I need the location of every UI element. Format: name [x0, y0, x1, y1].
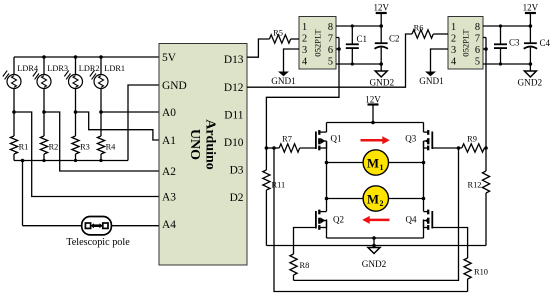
svg-text:R1: R1	[19, 143, 29, 152]
telescopic pole sensor	[23, 161, 160, 249]
svg-text:GND1: GND1	[271, 76, 296, 86]
svg-text:D10: D10	[224, 137, 244, 149]
svg-text:7: 7	[475, 33, 480, 44]
pin label D12	[224, 82, 244, 94]
node LDR2 top	[74, 55, 78, 59]
svg-text:5V: 5V	[162, 52, 177, 64]
wire Q3 drain riser	[423, 123, 425, 133]
wire pin5 rail right	[483, 63, 530, 65]
node C2 top	[379, 24, 383, 28]
pin label D2	[230, 192, 244, 204]
node GND2 tap	[372, 236, 376, 240]
wire pin8 rail	[336, 25, 381, 27]
svg-text:Q1: Q1	[331, 134, 342, 144]
node LDR3 top	[42, 55, 46, 59]
node R7 left A	[265, 146, 269, 150]
svg-text:6: 6	[475, 45, 480, 56]
svg-text:D3: D3	[230, 165, 244, 177]
node LDR1 bottom	[99, 110, 103, 114]
node GND2 L2 junction	[372, 244, 376, 248]
pin label D13	[224, 54, 244, 66]
wire GND2 stem	[373, 238, 375, 246]
resistor R7	[279, 135, 316, 153]
node C3 top	[499, 24, 502, 27]
svg-text:A3: A3	[162, 192, 176, 204]
node C3 bottom	[499, 62, 502, 65]
supply 12V bridge	[365, 95, 381, 123]
ground GND1 left	[271, 72, 296, 87]
wire left leg	[326, 141, 328, 211]
wire pin3 to GND1 right	[431, 49, 449, 72]
capacitor C4	[524, 26, 550, 64]
node LDR3 bottom	[42, 110, 46, 114]
node LDR1 top	[99, 55, 103, 59]
supply 12V left opto	[373, 2, 389, 26]
svg-text:8: 8	[475, 22, 480, 33]
pin label A4	[162, 219, 176, 231]
pin label GND	[162, 80, 187, 92]
node R3 bottom	[74, 159, 77, 162]
optocoupler U2 TLP250	[448, 17, 483, 70]
arrow current left	[362, 216, 389, 224]
wire L3 link	[294, 148, 459, 280]
LDR LDR1	[90, 57, 125, 112]
supply 12V right opto	[523, 2, 539, 26]
svg-text:3: 3	[302, 45, 307, 56]
svg-text:GND2: GND2	[518, 78, 543, 88]
node R7 left B	[272, 146, 276, 150]
resistor R8	[290, 254, 309, 280]
wire LDR2 node to A1	[76, 112, 160, 140]
pin label 5V	[162, 52, 177, 64]
svg-text:7: 7	[328, 33, 333, 44]
svg-text:D2: D2	[230, 192, 244, 204]
resistor R12	[468, 148, 490, 246]
node LDR4 bottom	[12, 110, 16, 114]
node Q3 gate node	[457, 146, 461, 150]
node M1 left	[325, 161, 329, 165]
pin label D11	[224, 110, 243, 122]
svg-text:2: 2	[380, 199, 384, 208]
svg-text:C3: C3	[509, 38, 520, 48]
transistor Q2	[316, 210, 344, 230]
svg-text:6: 6	[328, 45, 333, 56]
wire 12V top rail	[327, 122, 424, 124]
svg-text:D13: D13	[224, 54, 244, 66]
wire D12 to R6	[247, 34, 412, 87]
svg-text:4: 4	[302, 56, 307, 67]
svg-text:1: 1	[380, 163, 384, 172]
capacitor C1	[346, 26, 367, 64]
resistor R10	[464, 258, 488, 292]
node 12V tap	[371, 121, 375, 125]
wire pin6 stub	[336, 48, 339, 50]
op-amp U? Arduino UNO box	[159, 44, 247, 266]
svg-text:12V: 12V	[373, 2, 389, 12]
wire M2 row	[327, 198, 424, 200]
svg-text:Arduino: Arduino	[203, 119, 218, 170]
svg-text:C4: C4	[540, 38, 550, 48]
wire left opto output	[266, 38, 339, 149]
svg-text:Q3: Q3	[405, 134, 416, 144]
resistor R2	[40, 112, 58, 161]
pin label A3	[162, 192, 176, 204]
svg-text:D12: D12	[224, 82, 244, 94]
node M2 right	[422, 197, 426, 201]
svg-text:R10: R10	[474, 268, 488, 277]
svg-text:M: M	[367, 193, 379, 207]
svg-text:5: 5	[475, 56, 480, 67]
wire bridge bottom rail	[327, 237, 424, 239]
svg-text:A0: A0	[162, 107, 176, 119]
wire D13 to R5	[247, 39, 269, 57]
svg-text:R5: R5	[273, 29, 283, 38]
wire R7 node	[266, 147, 279, 149]
svg-text:A4: A4	[162, 219, 176, 231]
resistor R11	[263, 148, 285, 246]
node pole tap	[21, 159, 25, 163]
transistor Q1	[316, 130, 342, 150]
svg-text:12V: 12V	[523, 2, 539, 12]
svg-text:GND: GND	[162, 80, 187, 92]
svg-text:Q2: Q2	[333, 214, 344, 224]
svg-text:5: 5	[328, 56, 333, 67]
svg-text:R8: R8	[300, 261, 310, 270]
wire 5V rail	[14, 56, 159, 58]
transistor Q4	[406, 210, 433, 230]
wire Q2 gate lead	[294, 228, 316, 255]
svg-text:R7: R7	[282, 135, 292, 144]
node R4 bottom	[99, 159, 102, 162]
svg-text:UNO: UNO	[187, 129, 202, 160]
wire pin8 rail right	[483, 25, 530, 27]
node C4 top	[529, 24, 533, 28]
motor M1	[363, 150, 388, 175]
capacitor C2	[375, 26, 400, 64]
node pin6 junction right	[484, 47, 488, 51]
wire pin6 stub right	[483, 48, 486, 50]
node pin6 junction	[337, 47, 341, 51]
wire LDR4 node to A3	[14, 112, 159, 197]
pin label A1	[162, 135, 176, 147]
svg-text:C1: C1	[357, 34, 368, 44]
node C2 bottom	[379, 62, 383, 66]
resistor R4	[97, 112, 116, 161]
svg-text:R4: R4	[106, 143, 117, 152]
svg-text:A2: A2	[162, 166, 176, 178]
wire right opto output	[485, 38, 487, 149]
wire GND rail	[14, 160, 128, 162]
node C4 bottom	[529, 62, 533, 66]
capacitor C3	[494, 26, 520, 64]
svg-text:Telescopic pole: Telescopic pole	[66, 237, 130, 248]
wire Q4 source drop	[423, 219, 425, 238]
svg-text:1: 1	[302, 22, 307, 33]
svg-text:A1: A1	[162, 135, 176, 147]
pin label A2	[162, 166, 176, 178]
resistor R6	[412, 24, 448, 39]
wire V2 to L4	[274, 148, 468, 292]
svg-text:4: 4	[451, 56, 456, 67]
node C1 top	[351, 24, 354, 27]
svg-text:LDR2: LDR2	[79, 64, 100, 73]
svg-text:052PLT: 052PLT	[313, 29, 323, 57]
optocoupler U1 TLP250	[299, 17, 336, 70]
svg-text:LDR3: LDR3	[47, 64, 68, 73]
wire pin5 rail	[336, 63, 381, 65]
node R2 bottom	[42, 159, 45, 162]
wire pin7 stub right	[483, 37, 486, 39]
wire LDR1 node to A0	[101, 111, 159, 113]
LDR LDR4	[3, 57, 39, 112]
pin label D3	[230, 165, 244, 177]
wire Q3 gate lead ext	[432, 147, 462, 149]
wire pin7 stub	[336, 37, 339, 39]
svg-text:2: 2	[451, 33, 456, 44]
wire L2 gnd link	[266, 245, 486, 247]
svg-text:3: 3	[451, 45, 456, 56]
resistor R3	[72, 112, 90, 161]
wire pin3 to GND1	[284, 49, 300, 72]
svg-text:C2: C2	[389, 34, 400, 44]
svg-text:R9: R9	[467, 135, 477, 144]
resistor R5	[269, 29, 299, 44]
transistor Q3	[405, 130, 432, 150]
wire Q4 gate lead	[432, 228, 467, 259]
node M2 left	[325, 197, 329, 201]
wire Q2 source drop	[326, 219, 328, 238]
svg-text:8: 8	[328, 22, 333, 33]
LDR LDR2	[64, 57, 99, 112]
wire GND rail to GND pin	[128, 85, 159, 161]
pin label A0	[162, 107, 176, 119]
node R9 right	[484, 146, 488, 150]
svg-text:R6: R6	[414, 24, 424, 33]
svg-text:R12: R12	[468, 181, 482, 190]
svg-text:GND2: GND2	[370, 78, 395, 88]
svg-text:1: 1	[451, 22, 456, 33]
resistor R9	[462, 135, 486, 153]
svg-text:12V: 12V	[365, 95, 381, 105]
pin label D10	[224, 137, 244, 149]
ground GND2 left opto	[370, 64, 395, 88]
svg-text:GND1: GND1	[419, 76, 444, 86]
wire M1 row	[327, 162, 424, 164]
svg-text:LDR4: LDR4	[17, 64, 39, 73]
svg-text:2: 2	[302, 33, 307, 44]
wire LDR3 node to A2	[44, 112, 159, 171]
svg-text:D11: D11	[224, 110, 243, 122]
svg-text:052PLT: 052PLT	[461, 29, 471, 57]
svg-text:GND2: GND2	[362, 259, 387, 269]
node LDR2 bottom	[74, 110, 78, 114]
wire Q1 drain riser	[326, 123, 328, 133]
ground GND2 bridge	[362, 246, 387, 270]
wire right leg	[423, 141, 425, 211]
ground GND2 right opto	[518, 64, 543, 88]
svg-text:LDR1: LDR1	[104, 64, 125, 73]
svg-text:R2: R2	[49, 143, 59, 152]
svg-text:M: M	[367, 157, 379, 171]
svg-text:Q4: Q4	[406, 214, 417, 224]
svg-text:R3: R3	[80, 143, 90, 152]
motor M2	[363, 186, 388, 211]
LDR LDR3	[33, 57, 68, 112]
node C1 bottom	[351, 62, 354, 65]
node M1 right	[422, 161, 426, 165]
arrow current right	[361, 136, 390, 144]
resistor R1	[10, 112, 28, 161]
ground GND1 right	[419, 72, 444, 87]
